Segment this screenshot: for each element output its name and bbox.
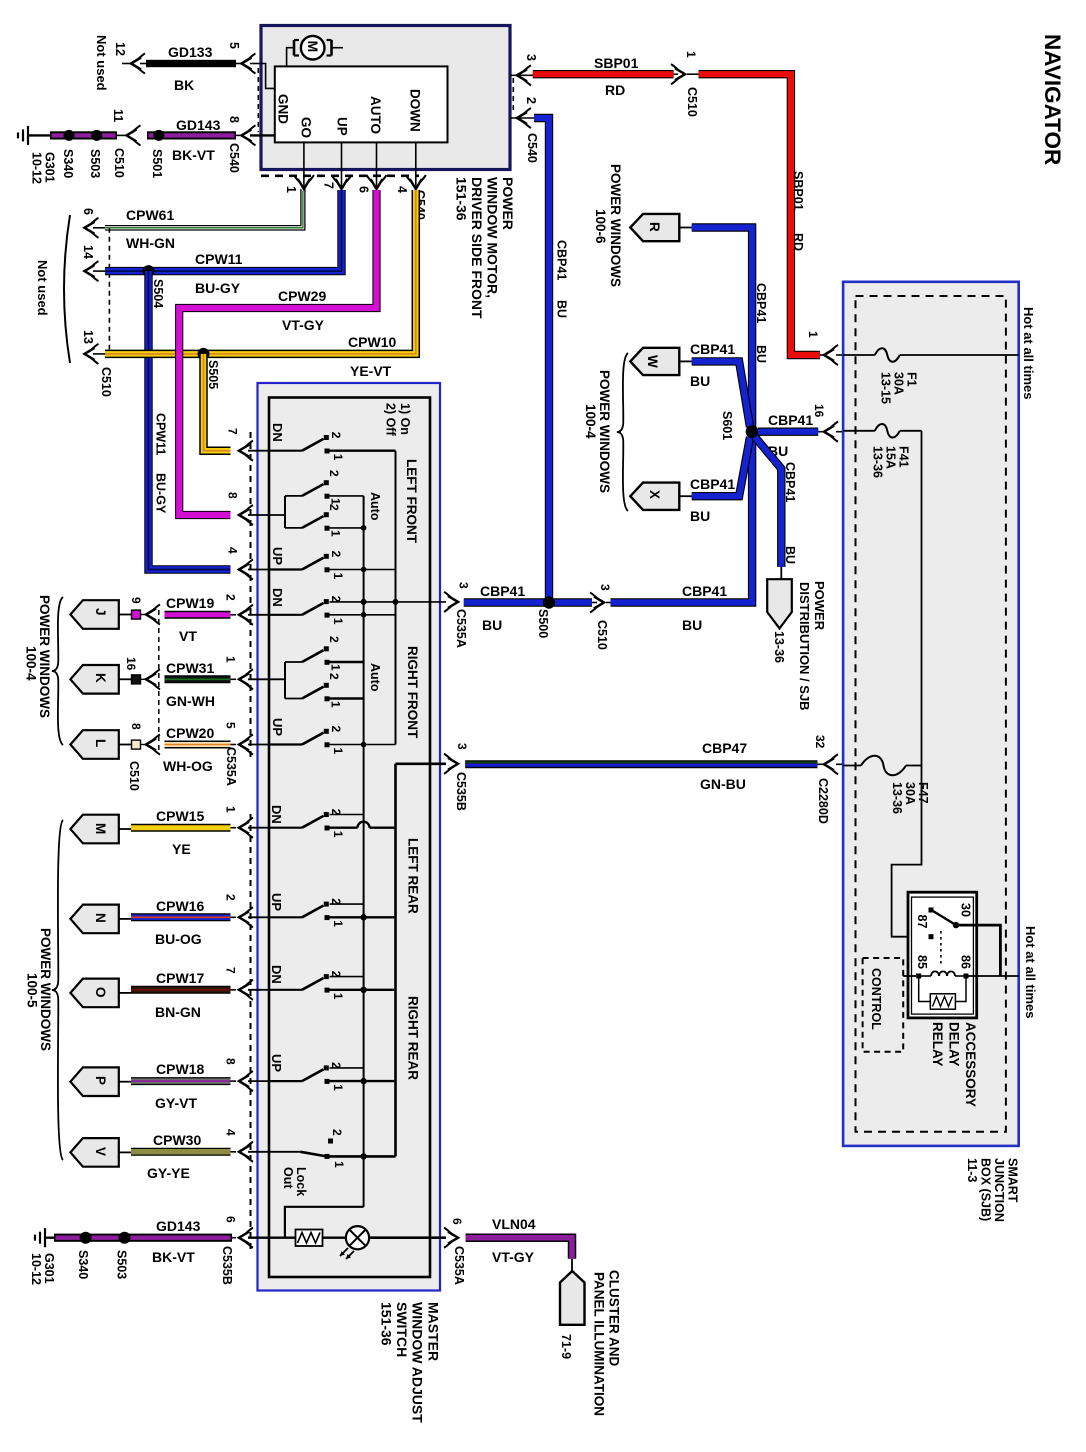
- wire motor AUTO pin lead: [376, 142, 378, 187]
- relay coil: [921, 975, 931, 977]
- connector L: [70, 730, 118, 759]
- svg-text:1: 1: [331, 748, 345, 755]
- svg-text:C535B: C535B: [220, 1246, 234, 1285]
- wire VLN04 VT-GY: [466, 1238, 572, 1259]
- svg-text:4: 4: [224, 1129, 238, 1136]
- svg-text:86: 86: [959, 955, 973, 969]
- pin 7 arrow: [336, 179, 348, 189]
- svg-text:151-36: 151-36: [454, 177, 470, 221]
- wire lockout to B3: [330, 1155, 396, 1158]
- svg-text:WH-GN: WH-GN: [126, 235, 175, 251]
- svg-text:1: 1: [331, 454, 345, 461]
- svg-text:POWER WINDOWS: POWER WINDOWS: [597, 370, 612, 493]
- svg-text:GD133: GD133: [168, 44, 213, 60]
- svg-text:85: 85: [915, 955, 929, 969]
- svg-text:C510: C510: [595, 620, 609, 650]
- relay actuator dotted link: [940, 931, 942, 964]
- wire CPW30 GY-YE: [131, 1148, 231, 1156]
- svg-text:GN-BU: GN-BU: [700, 776, 746, 792]
- svg-text:Hot at all times: Hot at all times: [1023, 926, 1038, 1018]
- svg-text:VT-GY: VT-GY: [492, 1249, 535, 1265]
- svg-text:NAVIGATOR: NAVIGATOR: [1040, 34, 1065, 165]
- svg-text:CPW16: CPW16: [156, 898, 204, 914]
- splice S504: [143, 265, 155, 277]
- svg-text:POWER: POWER: [812, 581, 827, 631]
- svg-text:RELAY: RELAY: [930, 1022, 945, 1067]
- connector C535A dashed line: [250, 432, 252, 758]
- connector power distribution / SJB: [767, 579, 792, 628]
- svg-text:GY-VT: GY-VT: [155, 1095, 197, 1111]
- wire CBP41 BU from motor pin 2: [534, 118, 549, 603]
- wire CBP41 BU horizontal: [464, 598, 592, 606]
- svg-text:6: 6: [450, 1218, 464, 1225]
- svg-text:CPW15: CPW15: [156, 808, 204, 824]
- svg-text:1: 1: [331, 573, 345, 580]
- svg-text:G301: G301: [42, 1253, 56, 1284]
- svg-text:DOWN: DOWN: [408, 89, 423, 132]
- svg-text:UP: UP: [269, 893, 284, 911]
- wire row4 contact1 link: [330, 614, 396, 616]
- wire CPW20 WH-OG: [132, 740, 141, 749]
- svg-text:WH-OG: WH-OG: [163, 758, 213, 774]
- wire CPW31 GN-WH: [132, 675, 141, 684]
- svg-text:POWER: POWER: [500, 177, 516, 230]
- svg-text:M: M: [93, 823, 108, 834]
- connector C510 dashed (left): [108, 228, 110, 352]
- brace JKL: [52, 597, 63, 745]
- wire illumination feed: [239, 1232, 249, 1244]
- wire CBP41 BU from R: [692, 228, 752, 429]
- svg-text:RD: RD: [791, 233, 805, 251]
- wire CPW1 BU-GY from S504 to switch pin 4: [149, 271, 231, 569]
- motor M1 symbol: [293, 40, 296, 56]
- svg-text:C535A: C535A: [454, 609, 468, 648]
- splice S340 (bottom): [80, 1232, 92, 1244]
- ground G301 (bottom): [44, 1228, 46, 1247]
- svg-text:BK: BK: [174, 77, 194, 93]
- wire CPW61 WH-GN: [105, 189, 301, 226]
- svg-text:WINDOW ADJUST: WINDOW ADJUST: [410, 1302, 426, 1423]
- svg-text:CPW30: CPW30: [153, 1132, 201, 1148]
- svg-text:J: J: [93, 608, 108, 616]
- svg-text:10-12: 10-12: [29, 1253, 43, 1285]
- wire motor pin5 internal: [261, 64, 275, 89]
- wire row8 contact1 to B3: [330, 916, 396, 918]
- svg-text:100-5: 100-5: [25, 973, 40, 1008]
- svg-text:SWITCH: SWITCH: [394, 1302, 410, 1357]
- wire motor GO pin lead: [303, 142, 305, 187]
- pin 3 C535B arrow: [448, 758, 458, 770]
- svg-text:DN: DN: [269, 805, 284, 824]
- svg-text:2: 2: [329, 551, 343, 558]
- pin 6 C535A arrow: [448, 1232, 458, 1244]
- wire relay 30 to hot feed: [956, 925, 1000, 976]
- control dashed box: [863, 958, 904, 1052]
- svg-text:13-36: 13-36: [871, 446, 885, 478]
- svg-text:S501: S501: [150, 149, 164, 178]
- svg-text:CBP41: CBP41: [754, 283, 768, 323]
- wire GD143 BK-VT (bottom): [45, 1236, 56, 1238]
- brace M-V: [52, 820, 63, 1160]
- svg-text:GD143: GD143: [176, 117, 221, 133]
- svg-text:Not used: Not used: [35, 260, 50, 316]
- wire control to relay 85: [903, 975, 916, 977]
- svg-text:RIGHT REAR: RIGHT REAR: [406, 996, 421, 1080]
- svg-text:Hot at all times: Hot at all times: [1021, 307, 1036, 399]
- svg-text:VLN04: VLN04: [492, 1216, 536, 1232]
- fuse F41 15A: [843, 430, 875, 432]
- svg-text:3: 3: [457, 582, 471, 589]
- connector C510 dashed (JKL): [158, 610, 160, 750]
- svg-text:100-6: 100-6: [593, 209, 608, 244]
- svg-text:DN: DN: [270, 588, 285, 607]
- motor pin 2: [510, 117, 534, 119]
- svg-text:YE: YE: [172, 841, 191, 857]
- svg-text:1: 1: [329, 664, 343, 671]
- wire CBP41 BU S601 to SJB pin 16: [758, 428, 818, 436]
- svg-text:C510: C510: [112, 148, 126, 178]
- SJB inner dashed border: [856, 296, 1006, 1132]
- relay resistor parallel: [919, 979, 931, 1002]
- bus B1 tail to lamp wire: [285, 1207, 364, 1238]
- wire CPW29 VT-GY: [179, 190, 376, 515]
- svg-text:GY-YE: GY-YE: [147, 1165, 190, 1181]
- svg-text:S503: S503: [88, 149, 102, 178]
- svg-text:S505: S505: [206, 360, 220, 389]
- wire F47 to relay pin 87: [892, 766, 928, 937]
- wire CBP41 BU from W: [692, 361, 750, 427]
- svg-text:C510: C510: [99, 367, 113, 397]
- svg-text:G301: G301: [43, 152, 57, 183]
- connector J: [70, 600, 118, 629]
- svg-text:SMART: SMART: [1006, 1158, 1020, 1203]
- wire CBP47 GN-BU: [465, 760, 817, 768]
- lamp (panel illumination): [346, 1226, 369, 1249]
- connector V: [70, 1138, 118, 1167]
- wire CBP41 BU from X: [692, 437, 750, 496]
- connector W: [630, 348, 679, 375]
- svg-text:1: 1: [329, 701, 343, 708]
- svg-text:S503: S503: [115, 1250, 129, 1279]
- svg-text:PANEL ILLUMINATION: PANEL ILLUMINATION: [592, 1272, 607, 1416]
- svg-text:2: 2: [524, 97, 538, 104]
- svg-text:32: 32: [813, 735, 827, 749]
- svg-text:CPW11: CPW11: [154, 413, 168, 455]
- brace WX: [617, 353, 628, 511]
- connector N: [70, 905, 118, 934]
- svg-text:CBP41: CBP41: [783, 462, 797, 502]
- svg-text:K: K: [93, 673, 108, 683]
- splice S500: [543, 596, 555, 608]
- svg-text:Auto: Auto: [368, 492, 382, 521]
- svg-text:GO: GO: [299, 117, 314, 138]
- pin 6 arrow: [371, 179, 383, 189]
- connector C510 break: [592, 602, 597, 604]
- svg-text:5: 5: [227, 42, 241, 49]
- svg-text:CPW18: CPW18: [156, 1061, 204, 1077]
- wire motor UP pin lead: [341, 142, 343, 187]
- svg-text:BU: BU: [482, 617, 502, 633]
- svg-text:2: 2: [224, 894, 238, 901]
- wire pin 3 C535B internal: [396, 762, 447, 765]
- svg-text:SBP01: SBP01: [594, 55, 639, 71]
- svg-text:BU: BU: [754, 345, 768, 363]
- svg-text:12: 12: [113, 42, 127, 56]
- svg-text:P: P: [93, 1076, 108, 1085]
- svg-text:2: 2: [327, 470, 341, 477]
- svg-text:BK-VT: BK-VT: [152, 1249, 195, 1265]
- svg-text:8: 8: [227, 116, 241, 123]
- svg-text:C540: C540: [227, 143, 241, 173]
- svg-text:RD: RD: [605, 82, 625, 98]
- svg-text:7: 7: [224, 967, 238, 974]
- svg-text:2: 2: [329, 432, 343, 439]
- wire hot feed: [969, 975, 1019, 977]
- svg-text:S500: S500: [536, 609, 550, 638]
- svg-text:BU-GY: BU-GY: [195, 280, 241, 296]
- wire row7 contact1 to B3 with hop: [330, 827, 358, 829]
- svg-text:C535A: C535A: [452, 1246, 466, 1285]
- svg-text:BU-GY: BU-GY: [154, 473, 168, 514]
- motor inner connector box: [275, 66, 448, 142]
- svg-text:BU: BU: [690, 373, 710, 389]
- svg-text:C535B: C535B: [454, 772, 468, 811]
- wire CPW19 VT: [132, 610, 141, 619]
- relay blade: [933, 911, 956, 925]
- svg-text:AUTO: AUTO: [368, 96, 383, 134]
- wire motor lead left: [287, 48, 294, 67]
- splice S340 (top): [64, 130, 75, 141]
- svg-text:UP: UP: [335, 117, 350, 136]
- svg-text:87: 87: [915, 915, 929, 929]
- svg-text:14: 14: [81, 245, 95, 259]
- wire row10 contact1 to B3: [330, 1080, 396, 1082]
- svg-text:4: 4: [226, 547, 240, 554]
- svg-text:CBP41: CBP41: [480, 583, 525, 599]
- svg-text:4: 4: [395, 186, 409, 193]
- svg-text:2: 2: [327, 636, 341, 643]
- svg-text:30A: 30A: [903, 782, 917, 805]
- svg-text:CBP41: CBP41: [690, 341, 735, 357]
- svg-text:CPW29: CPW29: [278, 288, 326, 304]
- svg-text:BU: BU: [682, 617, 702, 633]
- svg-text:X: X: [647, 490, 662, 499]
- splice S501: [153, 130, 164, 141]
- svg-text:11-3: 11-3: [965, 1158, 979, 1182]
- svg-text:GN-WH: GN-WH: [166, 693, 215, 709]
- svg-text:BK-VT: BK-VT: [172, 147, 215, 163]
- svg-text:CPW31: CPW31: [166, 660, 214, 676]
- svg-text:LEFT REAR: LEFT REAR: [406, 838, 421, 914]
- svg-text:R: R: [647, 222, 662, 232]
- svg-text:V: V: [93, 1147, 108, 1156]
- svg-text:O: O: [93, 987, 108, 998]
- svg-text:VT: VT: [179, 628, 197, 644]
- svg-text:LEFT FRONT: LEFT FRONT: [404, 459, 419, 544]
- pin 1 arrow: [298, 179, 310, 189]
- connector cluster and panel illumination: [560, 1271, 585, 1325]
- svg-text:6: 6: [81, 208, 95, 215]
- svg-text:RIGHT FRONT: RIGHT FRONT: [405, 646, 420, 739]
- wire CBP41 BU to S601: [611, 432, 753, 603]
- svg-text:16: 16: [124, 657, 138, 671]
- svg-text:DISTRIBUTION / SJB: DISTRIBUTION / SJB: [797, 582, 812, 711]
- svg-text:2: 2: [329, 726, 343, 733]
- connector X: [630, 483, 679, 510]
- svg-text:UP: UP: [270, 547, 285, 565]
- wire row7 contact2 to B1: [330, 814, 364, 816]
- svg-text:CBP41: CBP41: [768, 412, 813, 428]
- svg-text:M: M: [305, 41, 321, 53]
- wire GD133 BK: [122, 63, 131, 65]
- svg-text:1: 1: [684, 51, 698, 58]
- svg-text:WINDOW MOTOR,: WINDOW MOTOR,: [485, 177, 501, 298]
- svg-text:10-12: 10-12: [30, 152, 44, 184]
- wire CPW10 from S505 to switch pin 7: [204, 354, 231, 451]
- svg-text:CPW11: CPW11: [195, 251, 243, 267]
- connector P: [70, 1067, 118, 1096]
- svg-text:CPW17: CPW17: [156, 970, 204, 986]
- svg-text:9: 9: [129, 597, 143, 604]
- svg-text:100-4: 100-4: [24, 646, 39, 681]
- svg-text:8: 8: [129, 723, 143, 730]
- svg-text:Out: Out: [281, 1167, 295, 1189]
- wire motor lead right: [332, 47, 344, 49]
- svg-text:15A: 15A: [884, 446, 898, 469]
- svg-text:Not used: Not used: [94, 35, 109, 91]
- svg-text:7: 7: [226, 428, 240, 435]
- svg-text:C510: C510: [127, 761, 141, 791]
- wire F41 to relay net: [921, 431, 923, 766]
- wire pin 3 C535A internal: [330, 601, 447, 603]
- svg-text:30A: 30A: [892, 372, 906, 395]
- svg-text:C540: C540: [525, 133, 539, 163]
- svg-text:CPW10: CPW10: [348, 334, 396, 350]
- splice S505: [198, 348, 210, 360]
- splice S601: [746, 425, 759, 438]
- not-used bracket arc: [64, 215, 70, 363]
- svg-text:1: 1: [329, 530, 343, 537]
- svg-text:8: 8: [224, 1058, 238, 1065]
- svg-text:13-36: 13-36: [890, 782, 904, 814]
- svg-text:5: 5: [224, 722, 238, 729]
- svg-text:3: 3: [455, 743, 469, 750]
- svg-text:1: 1: [331, 831, 345, 838]
- svg-text:2: 2: [224, 594, 238, 601]
- svg-text:S601: S601: [720, 411, 734, 440]
- fuse F1 30A: [843, 354, 875, 356]
- wire SBP01 RD to SJB pin 1: [699, 74, 820, 355]
- connector C540 dashed (bottom): [261, 175, 419, 178]
- svg-text:GND: GND: [276, 94, 291, 124]
- svg-text:CPW19: CPW19: [166, 595, 214, 611]
- svg-text:13: 13: [81, 330, 95, 344]
- wire auto2 contacts to bus B1: [330, 661, 364, 663]
- svg-text:S340: S340: [61, 149, 75, 178]
- switch inner box: [269, 398, 430, 1278]
- svg-text:16: 16: [812, 404, 826, 418]
- svg-text:1: 1: [284, 186, 298, 193]
- svg-text:CONTROL: CONTROL: [869, 968, 883, 1030]
- svg-text:YE-VT: YE-VT: [350, 363, 392, 379]
- svg-text:SBP01: SBP01: [791, 171, 805, 211]
- svg-text:1: 1: [224, 656, 238, 663]
- svg-text:71-9: 71-9: [559, 1334, 573, 1359]
- svg-text:1: 1: [224, 806, 238, 813]
- svg-text:ACCESSORY: ACCESSORY: [963, 1022, 978, 1107]
- ground G301 (top): [27, 126, 29, 145]
- wire SBP01 RD from motor pin 3: [533, 70, 674, 78]
- connector C540 dashed (left): [257, 68, 259, 132]
- svg-text:JUNCTION: JUNCTION: [992, 1158, 1006, 1222]
- wire CPW17 BN-GN: [131, 986, 231, 994]
- svg-text:CBP41: CBP41: [555, 240, 569, 280]
- svg-text:13-36: 13-36: [772, 631, 786, 663]
- wire resistor to lamp: [323, 1236, 346, 1238]
- svg-text:F1: F1: [905, 372, 919, 387]
- svg-text:1: 1: [806, 331, 820, 338]
- svg-text:CLUSTER AND: CLUSTER AND: [607, 1270, 622, 1366]
- wire GD143 BK-VT (top): [28, 134, 52, 136]
- wire row6 contact1 link: [330, 744, 396, 746]
- svg-text:11: 11: [111, 109, 125, 122]
- svg-text:6: 6: [357, 186, 371, 193]
- svg-text:1) On: 1) On: [398, 403, 412, 435]
- svg-text:C535A: C535A: [224, 747, 238, 786]
- svg-text:1: 1: [331, 618, 345, 625]
- bus B1 vertical: [363, 496, 365, 1207]
- svg-text:3: 3: [524, 54, 538, 61]
- wire auto contacts to bus B1: [330, 495, 364, 497]
- svg-text:GD143: GD143: [156, 1218, 201, 1234]
- svg-text:VT-GY: VT-GY: [282, 317, 325, 333]
- wire row8 contact2 to B1: [330, 903, 364, 905]
- svg-text:Lock: Lock: [294, 1167, 308, 1196]
- svg-text:CBP41: CBP41: [690, 476, 735, 492]
- svg-text:N: N: [93, 913, 108, 923]
- splice S503 (bottom): [119, 1232, 131, 1244]
- svg-text:F41: F41: [897, 446, 911, 468]
- svg-text:UP: UP: [270, 718, 285, 736]
- connector K: [70, 665, 118, 694]
- connector C535B dashed line: [250, 814, 252, 1252]
- wire row9 contact1 to B3: [330, 989, 396, 991]
- svg-text:Auto: Auto: [368, 663, 382, 692]
- svg-text:W: W: [645, 355, 660, 368]
- svg-text:3: 3: [598, 584, 612, 591]
- svg-text:BOX (SJB): BOX (SJB): [979, 1158, 993, 1221]
- connector C510 break (red): [674, 73, 678, 75]
- svg-text:6: 6: [224, 1216, 238, 1223]
- pin 3 C535A arrow: [448, 596, 458, 608]
- pin 4 arrow: [410, 179, 422, 189]
- svg-text:30: 30: [959, 903, 973, 917]
- svg-text:151-36: 151-36: [379, 1302, 395, 1346]
- svg-text:CBP41: CBP41: [682, 583, 727, 599]
- wire CPW16 BU-OG: [131, 913, 231, 921]
- connector C540 dashed (right): [512, 78, 514, 114]
- svg-text:UP: UP: [269, 1054, 284, 1072]
- svg-text:DRIVER SIDE FRONT: DRIVER SIDE FRONT: [469, 177, 485, 319]
- svg-text:S504: S504: [151, 279, 165, 308]
- svg-text:1: 1: [332, 1161, 346, 1168]
- motor pin 3: [510, 74, 533, 76]
- power window motor module box: [261, 26, 510, 170]
- wire lamp to pin 6 C535A: [369, 1236, 446, 1239]
- svg-text:DN: DN: [270, 423, 285, 442]
- svg-text:2) Off: 2) Off: [384, 403, 398, 436]
- wire CPW11 BU-GY: [105, 190, 342, 271]
